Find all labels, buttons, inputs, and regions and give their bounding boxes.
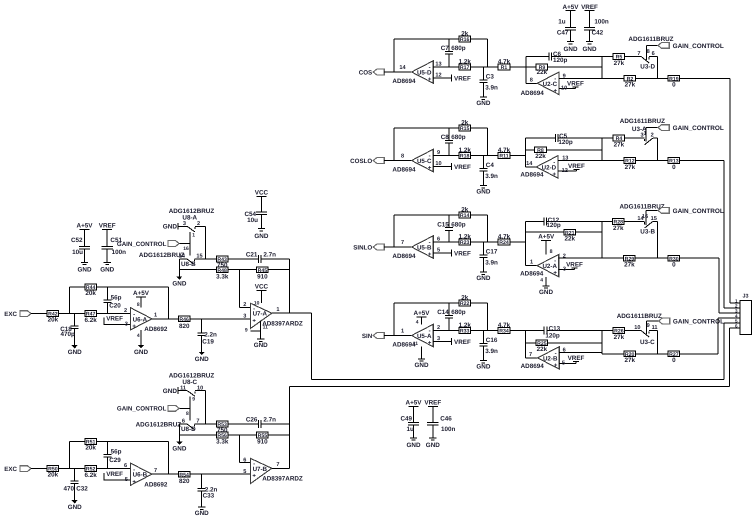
svg-text:3.9n: 3.9n <box>485 259 498 266</box>
svg-text:2.2n: 2.2n <box>204 332 217 339</box>
svg-text:GND: GND <box>426 442 440 449</box>
svg-text:14: 14 <box>399 65 406 71</box>
svg-text:20k: 20k <box>48 472 59 479</box>
pin 16 <box>183 246 189 252</box>
VREF net <box>451 74 471 82</box>
svg-text:10: 10 <box>634 325 640 331</box>
wire <box>96 468 129 470</box>
svg-text:120p: 120p <box>546 222 561 229</box>
capacitor C19 2.2n <box>198 319 217 352</box>
svg-text:6.2k: 6.2k <box>84 472 97 479</box>
svg-text:VREF: VREF <box>566 261 583 268</box>
svg-text:7: 7 <box>154 468 157 474</box>
resistor R42 20k <box>47 311 59 324</box>
wire <box>510 330 526 332</box>
svg-text:1: 1 <box>276 307 279 313</box>
ground (U2-A) <box>539 286 553 296</box>
wire <box>602 330 613 332</box>
svg-text:U5-A: U5-A <box>417 333 432 340</box>
pin 8 <box>550 249 553 255</box>
wire <box>724 322 740 324</box>
resistor R8 22k <box>535 147 547 160</box>
wire <box>636 353 669 355</box>
svg-text:AD8694: AD8694 <box>520 171 544 178</box>
wire <box>647 320 659 322</box>
resistor R17 1.2k <box>459 58 472 71</box>
GND net (switch) <box>163 223 178 231</box>
svg-text:14: 14 <box>526 161 533 167</box>
svg-text:+: + <box>554 88 558 94</box>
wire <box>525 138 527 167</box>
wire <box>680 77 730 79</box>
ground (C47) <box>564 42 578 53</box>
capacitor C17 3.9n <box>479 242 498 272</box>
svg-text:C42: C42 <box>592 30 604 37</box>
wire <box>168 442 170 475</box>
ground (C18) <box>68 345 82 356</box>
svg-text:+: + <box>428 252 432 258</box>
pin 3 <box>437 336 440 342</box>
wire <box>625 137 645 139</box>
pin 7 <box>401 240 404 246</box>
svg-text:1: 1 <box>192 232 195 238</box>
resistor R30 0 <box>668 255 680 268</box>
label ADG1611BRUZ (U3-B) <box>620 203 665 210</box>
wire <box>601 331 603 353</box>
wire <box>433 66 459 68</box>
svg-text:27k: 27k <box>614 60 625 67</box>
svg-text:U2-D: U2-D <box>542 164 557 171</box>
resistor R45 910 <box>257 267 269 281</box>
svg-text:+: + <box>428 341 432 347</box>
port GAIN_CONTROL (U3-B) <box>658 208 669 214</box>
wire <box>724 307 740 309</box>
svg-text:GAIN_CONTROL: GAIN_CONTROL <box>117 241 167 248</box>
capacitor C46 100n <box>427 406 455 437</box>
wire <box>178 259 180 276</box>
svg-text:+: + <box>554 363 558 369</box>
resistor R20 27k <box>624 351 636 364</box>
pin 6 <box>124 463 127 469</box>
VREF net <box>568 355 585 363</box>
wire <box>393 303 395 336</box>
op-amp U6-B (AD8692) <box>130 463 152 485</box>
capacitor C54 10u <box>244 196 267 228</box>
wire <box>680 257 719 259</box>
svg-text:AD8692: AD8692 <box>144 326 168 333</box>
svg-text:J3: J3 <box>743 293 749 299</box>
svg-text:GND: GND <box>254 342 268 349</box>
svg-text:680p: 680p <box>451 221 466 228</box>
wire <box>558 160 602 162</box>
wire <box>730 302 740 304</box>
wire <box>433 341 451 343</box>
wire <box>70 286 169 288</box>
wire <box>624 220 645 222</box>
ground (U5-A) <box>415 359 429 369</box>
op-amp U2-B (AD8694) <box>538 347 560 369</box>
svg-text:11: 11 <box>180 385 186 391</box>
port SIN <box>362 333 384 340</box>
wire <box>656 138 658 160</box>
svg-text:6: 6 <box>243 457 246 463</box>
resistor R26 27k <box>613 328 625 341</box>
svg-text:27k: 27k <box>613 225 624 232</box>
wire <box>525 231 564 233</box>
wire <box>635 257 668 259</box>
svg-text:3: 3 <box>243 314 246 320</box>
ground (C42) <box>583 42 597 53</box>
pin 2 <box>563 253 566 259</box>
power A+5V (U2-A) <box>538 234 555 241</box>
wire <box>179 407 190 409</box>
resistor R4 27k <box>613 135 625 148</box>
svg-text:+: + <box>553 172 557 178</box>
svg-text:1.2k: 1.2k <box>459 233 472 240</box>
pin 1 <box>192 232 195 238</box>
ground (C17) <box>476 272 490 282</box>
wire <box>487 303 489 331</box>
wire <box>59 468 85 470</box>
power VCC (C54) <box>255 190 269 197</box>
wire <box>178 424 180 442</box>
pin 12 <box>435 72 441 78</box>
resistor R43 750 <box>216 256 228 269</box>
pin 14 <box>526 161 533 167</box>
svg-text:C13: C13 <box>549 325 561 332</box>
pin 8 <box>137 302 140 308</box>
power A+5V (C52) <box>77 223 94 230</box>
wire <box>718 258 720 313</box>
pin 5 <box>125 477 128 483</box>
ground (U8-D) <box>172 442 186 453</box>
svg-text:C3: C3 <box>486 73 495 80</box>
wire <box>394 38 488 40</box>
power A+5V (C47) <box>563 4 580 11</box>
power VREF (C42) <box>581 4 598 11</box>
svg-text:1: 1 <box>401 329 404 335</box>
svg-text:2k: 2k <box>461 119 469 126</box>
svg-text:910: 910 <box>257 439 268 446</box>
pin 14 <box>399 65 406 71</box>
wire <box>719 312 740 314</box>
svg-text:U8-D: U8-D <box>181 426 196 433</box>
svg-text:910: 910 <box>257 273 268 280</box>
svg-text:+: + <box>132 479 136 485</box>
capacitor C33 2.2n <box>198 474 218 507</box>
wire <box>559 351 602 353</box>
svg-text:C32: C32 <box>76 486 88 493</box>
resistor R13 0 <box>668 158 680 171</box>
wire <box>559 269 575 271</box>
svg-text:0: 0 <box>672 164 676 171</box>
wire <box>625 55 641 57</box>
wire <box>729 328 731 387</box>
label ADG1612BRUZ (U8-D) <box>136 422 182 429</box>
wire <box>471 241 499 243</box>
wire <box>601 331 603 354</box>
svg-text:3: 3 <box>183 221 186 227</box>
svg-text:2: 2 <box>124 308 127 314</box>
svg-text:R17: R17 <box>460 65 470 71</box>
resistor R33 1.2k <box>459 322 472 335</box>
label AD8397ARDZ <box>262 321 303 328</box>
svg-text:2k: 2k <box>461 30 469 37</box>
svg-text:10u: 10u <box>72 249 83 256</box>
pin 9 <box>437 150 440 156</box>
GND net (switch) <box>163 387 178 395</box>
svg-text:GND: GND <box>195 356 209 363</box>
wire <box>204 226 206 259</box>
svg-text:27k: 27k <box>614 142 625 149</box>
svg-text:U5-D: U5-D <box>417 70 432 77</box>
wire <box>288 259 290 313</box>
svg-text:GND: GND <box>583 46 597 53</box>
wire <box>525 265 537 267</box>
svg-text:1.2k: 1.2k <box>459 322 472 329</box>
op-amp U5-D (AD8694) <box>412 61 434 83</box>
svg-text:1u: 1u <box>406 426 414 433</box>
pin 3 <box>243 314 246 320</box>
wire <box>140 330 142 345</box>
svg-text:C7: C7 <box>441 45 450 52</box>
wire <box>288 387 290 469</box>
resistor R56 3.3k <box>216 432 229 446</box>
port SINLO <box>353 244 384 251</box>
wire <box>601 221 603 258</box>
VREF net <box>568 163 585 171</box>
svg-text:A+5V: A+5V <box>133 290 150 297</box>
svg-text:1: 1 <box>154 312 157 318</box>
wire <box>487 215 489 242</box>
capacitor C21 2.7n <box>246 252 289 263</box>
wire <box>729 78 731 303</box>
analog switch U3-B <box>637 210 656 228</box>
svg-text:4: 4 <box>540 277 543 283</box>
label AD8694 <box>392 167 416 174</box>
label AD8694 <box>392 78 416 85</box>
svg-text:GND: GND <box>539 289 553 296</box>
label ADG1611BRUZ (U3-A) <box>620 118 665 125</box>
wire <box>194 423 216 425</box>
port GAIN_CONTROL <box>117 405 179 412</box>
svg-text:8: 8 <box>186 411 189 417</box>
svg-text:470p: 470p <box>60 331 75 338</box>
svg-text:11: 11 <box>413 341 419 347</box>
wire <box>602 353 624 355</box>
resistor R44 20k <box>85 284 97 297</box>
svg-text:+: + <box>132 324 136 330</box>
svg-text:5: 5 <box>562 360 565 366</box>
svg-text:4.7k: 4.7k <box>498 147 511 154</box>
resistor R46 820 <box>178 316 190 330</box>
analog switch U3-A <box>640 128 653 145</box>
svg-text:VREF: VREF <box>106 471 123 478</box>
svg-text:AD8397ARDZ: AD8397ARDZ <box>262 321 303 328</box>
op-amp U2-C (AD8694) <box>537 72 559 94</box>
svg-text:GND: GND <box>476 189 490 196</box>
resistor R47 6.2k <box>84 311 97 325</box>
power VCC (U7-A) <box>255 284 269 291</box>
capacitor C32 470p <box>63 469 88 500</box>
svg-text:27k: 27k <box>614 334 625 341</box>
wire <box>487 39 489 67</box>
wire <box>558 170 577 172</box>
svg-text:2.7n: 2.7n <box>263 252 276 259</box>
resistor R34 4.7k <box>498 322 511 335</box>
resistor R51 20k <box>85 439 97 452</box>
wire <box>653 137 658 139</box>
ground (C33) <box>195 507 209 516</box>
svg-text:+: + <box>428 166 432 172</box>
pin 7 <box>276 462 279 468</box>
label U3-B <box>640 229 655 236</box>
wire <box>548 342 602 344</box>
wire <box>394 214 488 216</box>
svg-text:2k: 2k <box>461 207 469 214</box>
connector J3 <box>735 293 752 334</box>
svg-text:4.7k: 4.7k <box>498 58 511 65</box>
wire <box>636 160 669 162</box>
svg-text:C15: C15 <box>437 221 449 228</box>
wire <box>723 323 725 380</box>
capacitor C26 2.7n <box>246 417 289 428</box>
svg-text:GND: GND <box>476 275 490 282</box>
svg-text:10u: 10u <box>247 217 258 224</box>
svg-text:4.7k: 4.7k <box>498 233 511 240</box>
port GAIN_CONTROL <box>117 241 179 248</box>
wire <box>649 330 657 332</box>
label ADG1612BRUZ (U8-C) <box>169 372 215 379</box>
svg-text:GND: GND <box>407 442 421 449</box>
svg-text:AD8694: AD8694 <box>392 78 416 85</box>
wire <box>526 149 535 151</box>
ground (C4) <box>476 186 490 196</box>
resistor R22 2k <box>459 294 471 307</box>
wire <box>559 257 602 259</box>
label GAIN_CONTROL <box>673 319 724 326</box>
resistor R24 4.7k <box>498 233 511 246</box>
svg-text:56p: 56p <box>111 449 122 456</box>
svg-text:10: 10 <box>254 301 260 307</box>
svg-text:2k: 2k <box>461 294 469 301</box>
svg-text:R33: R33 <box>460 329 470 335</box>
power A+5V (U6-A) <box>133 290 150 297</box>
wire <box>433 166 451 168</box>
pin 6 <box>243 457 246 463</box>
wire <box>190 473 247 475</box>
svg-text:12: 12 <box>562 168 568 174</box>
pin 10 <box>254 301 260 307</box>
pin 10 <box>561 86 567 92</box>
svg-text:22k: 22k <box>537 69 548 76</box>
wire <box>559 77 602 79</box>
svg-text:GND: GND <box>100 266 114 273</box>
VREF net <box>451 249 471 257</box>
wire <box>526 66 536 68</box>
svg-text:C16: C16 <box>486 337 498 344</box>
wire <box>202 318 251 320</box>
label GAIN_CONTROL <box>673 208 724 215</box>
svg-text:22k: 22k <box>565 235 576 242</box>
svg-text:7: 7 <box>276 462 279 468</box>
wire <box>140 297 142 308</box>
wire <box>312 379 724 381</box>
wire <box>525 56 527 83</box>
wire <box>168 287 170 319</box>
svg-text:56p: 56p <box>111 294 122 301</box>
svg-text:VREF: VREF <box>568 163 585 170</box>
wire <box>289 386 729 388</box>
port EXC <box>4 466 31 473</box>
port COS <box>359 69 384 76</box>
ground (U6-A) <box>134 345 148 356</box>
label U8-A <box>182 215 197 222</box>
resistor R2 27k <box>624 75 636 88</box>
op-amp U5-B (AD8694) <box>412 236 434 258</box>
wire <box>179 243 190 245</box>
wire <box>723 161 725 309</box>
capacitor C20 56p <box>104 287 122 314</box>
wire <box>178 225 187 227</box>
label ADG1611BRUZ (U3-C) <box>617 313 662 320</box>
resistor R55 910 <box>257 432 269 446</box>
op-amp U7-A (AD8397) <box>250 303 271 328</box>
wire <box>239 462 250 464</box>
VREF net <box>104 471 123 480</box>
wire <box>487 128 489 156</box>
svg-text:C8: C8 <box>441 134 450 141</box>
svg-text:U8-A: U8-A <box>182 215 197 222</box>
label U8-B <box>181 261 196 268</box>
label U3-A <box>632 126 647 133</box>
wire <box>526 166 537 168</box>
ground (C49) <box>407 438 421 449</box>
pin 5 <box>243 469 246 475</box>
wire <box>384 335 411 337</box>
svg-text:C17: C17 <box>486 248 498 255</box>
svg-text:27k: 27k <box>625 82 636 89</box>
resistor R18 1.2k <box>459 147 472 160</box>
svg-text:C46: C46 <box>440 415 452 422</box>
wire <box>272 467 290 469</box>
svg-text:U5-C: U5-C <box>417 158 432 165</box>
wire <box>433 155 459 157</box>
analog switch U3-C <box>634 321 657 337</box>
svg-text:R24: R24 <box>499 240 509 246</box>
pin 3 <box>125 322 128 328</box>
label GAIN_CONTROL <box>673 43 724 50</box>
svg-text:U2-C: U2-C <box>543 81 558 88</box>
resistor R21 22k <box>564 229 576 242</box>
svg-text:3: 3 <box>125 322 128 328</box>
wire <box>510 241 526 243</box>
wire <box>384 160 411 162</box>
svg-text:VREF: VREF <box>454 250 471 257</box>
ground (C52) <box>78 262 92 273</box>
svg-text:GAIN_CONTROL: GAIN_CONTROL <box>673 43 724 50</box>
svg-text:R18: R18 <box>460 154 470 160</box>
wire <box>272 312 312 314</box>
svg-text:U3-D: U3-D <box>640 64 655 71</box>
wire <box>179 423 186 425</box>
ground (C51) <box>100 262 114 273</box>
svg-text:ADG1611BRUZ: ADG1611BRUZ <box>620 118 665 125</box>
label AD8692 <box>144 326 168 333</box>
svg-text:C21: C21 <box>246 252 258 259</box>
svg-text:U8-B: U8-B <box>181 261 196 268</box>
wire <box>178 390 187 392</box>
